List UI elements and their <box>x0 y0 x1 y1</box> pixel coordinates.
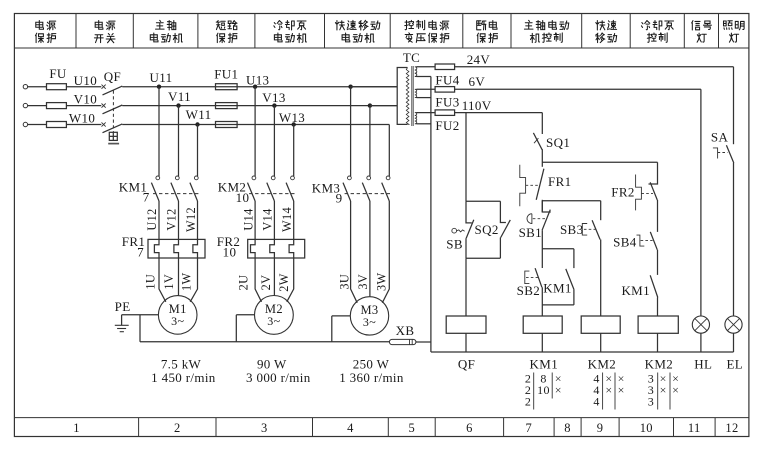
svg-text:FR2: FR2 <box>611 185 634 200</box>
svg-text:1U: 1U <box>144 274 158 290</box>
svg-text:W10: W10 <box>69 111 95 126</box>
node U11 junction <box>157 85 161 89</box>
svg-text:3: 3 <box>261 421 268 435</box>
svg-text:SB: SB <box>446 237 463 252</box>
svg-text:1 450 r/min: 1 450 r/min <box>151 370 216 385</box>
wire V11 drop to KM1 <box>178 106 180 177</box>
svg-text:11: 11 <box>688 421 701 435</box>
wire FR1 to node <box>541 200 543 212</box>
thermal overload FR2 heater elements <box>248 239 305 258</box>
wire KM2 second coil to rail <box>657 333 659 352</box>
header cell 电源开关 <box>94 20 115 42</box>
svg-text:3V: 3V <box>356 274 370 290</box>
fuse FU1 (3 elements) <box>216 84 238 128</box>
svg-text:2V: 2V <box>259 275 273 291</box>
svg-text:FU3: FU3 <box>435 95 459 110</box>
node W11 junction <box>195 122 199 126</box>
phase bus W11 line <box>122 124 389 126</box>
wire W drop to KM3 <box>388 125 390 177</box>
svg-text:V13: V13 <box>262 90 285 105</box>
svg-text:FU4: FU4 <box>435 72 459 87</box>
svg-text:SB3: SB3 <box>560 222 583 237</box>
wire PE to motor M1 <box>122 314 159 316</box>
transformer TC secondary winding 6V <box>415 89 417 97</box>
connector XB <box>389 339 416 344</box>
svg-text:×: × <box>660 383 667 397</box>
svg-text:SQ2: SQ2 <box>475 222 499 237</box>
net 110V line <box>455 112 543 114</box>
transformer TC secondary winding 110V <box>415 113 417 124</box>
wire SB1 to SB2 <box>541 230 543 268</box>
contact usage table KM2 (second) <box>648 372 680 410</box>
svg-text:10: 10 <box>640 421 653 435</box>
node W13 junction <box>292 122 296 126</box>
wire 110V drop to SB-SQ2 branch <box>465 113 467 202</box>
svg-text:KM2: KM2 <box>588 357 617 372</box>
node line to FR2 branch <box>542 161 657 163</box>
svg-text:×: × <box>618 383 625 397</box>
wire FR2 branch upper <box>649 162 658 184</box>
wire FU to QF (V10) <box>66 105 101 107</box>
wire SB2 to KM1 coil <box>541 287 543 316</box>
header cell 快速移动 <box>596 20 617 42</box>
wire SB branch upper <box>466 201 472 223</box>
selector button SB4 <box>637 232 658 250</box>
svg-text:KM1: KM1 <box>543 280 572 295</box>
wire HL to rail <box>700 333 702 352</box>
contactor KM1 main contacts <box>151 176 198 201</box>
header cell 电源保护 <box>35 20 55 42</box>
svg-text:110V: 110V <box>462 98 492 113</box>
breaker QF actuator base bar <box>108 143 119 145</box>
wire SB3 to KM2 coil <box>600 240 602 317</box>
wire SA to EL <box>733 163 735 316</box>
net 6V line <box>455 88 701 90</box>
transformer TC primary winding <box>406 68 409 125</box>
svg-text:1 360 r/min: 1 360 r/min <box>339 370 404 385</box>
svg-text:HL: HL <box>694 357 712 372</box>
svg-text:PE: PE <box>115 299 131 314</box>
svg-text:TC: TC <box>403 50 420 65</box>
svg-text:SB1: SB1 <box>519 225 542 240</box>
breaker QF fixed contacts (x marks) <box>102 85 106 127</box>
svg-text:4: 4 <box>347 421 354 435</box>
svg-text:7: 7 <box>137 245 144 260</box>
bottom reference column dividers <box>139 418 716 437</box>
transformer TC primary terminal bar <box>397 68 407 125</box>
header cell 照明灯 <box>724 21 745 42</box>
header cell 断电保护 <box>477 20 498 42</box>
contact usage table KM1 <box>525 372 562 410</box>
svg-text:6V: 6V <box>469 74 486 89</box>
svg-text:V11: V11 <box>168 89 191 104</box>
svg-text:3 000 r/min: 3 000 r/min <box>246 370 311 385</box>
fuse FU3 <box>435 87 455 93</box>
control common rail (bottom) <box>431 351 734 353</box>
svg-text:W12: W12 <box>184 207 198 232</box>
svg-text:SA: SA <box>711 130 729 145</box>
svg-text:W14: W14 <box>280 207 294 232</box>
phase bus V11 line <box>122 105 397 107</box>
svg-text:QF: QF <box>458 357 475 372</box>
wire TC tap to FU2 <box>417 112 436 114</box>
header cell 主轴电动机控制 <box>524 20 568 42</box>
supply terminal L2 <box>23 103 27 107</box>
stop button SB2 <box>525 268 542 287</box>
svg-text:3~: 3~ <box>171 314 184 328</box>
svg-text:FU: FU <box>49 66 67 81</box>
supply terminal L1 <box>23 85 27 89</box>
svg-text:3~: 3~ <box>267 314 280 328</box>
svg-text:3U: 3U <box>338 274 352 290</box>
control common rail (left) <box>430 77 432 353</box>
pushbutton SB operator <box>452 228 465 233</box>
wire SQ2 branch upper <box>500 201 506 222</box>
wire M3 PE drop <box>331 316 333 342</box>
svg-text:EL: EL <box>727 357 744 372</box>
wires KM2 to FR2 <box>255 201 294 239</box>
svg-text:3W: 3W <box>375 273 389 291</box>
svg-text:2: 2 <box>525 395 531 409</box>
wire FU to QF (W10) <box>66 124 101 126</box>
svg-text:U13: U13 <box>246 72 269 87</box>
header cell 控制电源变压保护 <box>405 20 449 42</box>
thermal contact FR2 <box>636 175 658 211</box>
svg-text:1W: 1W <box>180 273 194 291</box>
wire 24V drop to SA <box>733 67 735 144</box>
svg-text:10: 10 <box>537 383 550 397</box>
coil KM1 <box>523 316 562 333</box>
limit switch SQ2 blade <box>501 220 511 238</box>
wire TC 6V return <box>417 97 431 99</box>
bottom reference row separator <box>14 417 749 419</box>
motor M3 <box>350 297 388 335</box>
start button SB1 <box>527 201 551 231</box>
node V11 junction <box>176 103 180 107</box>
net 24V line <box>455 66 734 68</box>
svg-text:W11: W11 <box>186 107 212 122</box>
header cell 快速移动电动机 <box>335 20 379 42</box>
contactor KM2 main contacts <box>248 176 295 201</box>
svg-text:U11: U11 <box>150 70 173 85</box>
function header row separator <box>14 47 749 49</box>
wire M2 PE drop <box>235 315 237 342</box>
node U-KM3 junction <box>348 85 352 89</box>
coil KM2 (second) <box>638 316 678 333</box>
transformer TC secondary winding 24V <box>415 67 417 77</box>
wire SQ2 branch lower <box>499 238 501 259</box>
svg-text:KM2: KM2 <box>645 357 674 372</box>
wire 110V to SQ1 <box>541 113 543 134</box>
svg-text:10: 10 <box>236 190 250 205</box>
wire terminal to fuse FU (L3) <box>28 124 47 126</box>
wire to QF release coil <box>465 258 467 316</box>
svg-text:8: 8 <box>564 421 571 435</box>
signal lamp HL <box>692 316 709 333</box>
svg-text:10: 10 <box>223 245 237 260</box>
node V-KM3 junction <box>368 103 372 107</box>
limit switch SQ1 <box>533 133 542 150</box>
transformer TC core <box>412 66 413 126</box>
fuse FU4 <box>435 64 455 70</box>
svg-text:7: 7 <box>526 421 533 435</box>
switch SA <box>713 145 734 163</box>
wire V13 drop to KM2 <box>273 106 275 177</box>
svg-text:2W: 2W <box>277 273 291 291</box>
svg-text:7: 7 <box>143 190 150 205</box>
wire W11 drop to KM1 <box>197 125 199 177</box>
svg-text:V12: V12 <box>165 208 179 230</box>
wire SB/SQ2 bottom bridge <box>466 257 500 259</box>
motor M2 <box>255 296 294 335</box>
svg-text:9: 9 <box>336 191 343 206</box>
wire TC tap to FU3 <box>417 88 436 90</box>
supply terminal L3 <box>23 122 27 126</box>
fuse FU (3 elements) <box>47 84 67 128</box>
svg-text:U14: U14 <box>241 208 255 230</box>
header column dividers <box>76 14 719 49</box>
wires KM1 to FR1 <box>159 201 198 239</box>
svg-text:U10: U10 <box>74 73 97 88</box>
wire M3 PE stub <box>332 315 351 317</box>
svg-text:12: 12 <box>725 421 738 435</box>
wire KM2 coil to rail <box>600 333 602 352</box>
wire M2 PE stub <box>236 314 254 316</box>
svg-text:3: 3 <box>648 395 654 409</box>
svg-text:FR1: FR1 <box>548 174 571 189</box>
wire PE bus drop <box>139 315 141 342</box>
wire SB branch lower <box>465 238 467 258</box>
wire W13 drop to KM2 <box>293 125 295 177</box>
svg-text:4: 4 <box>593 395 599 409</box>
wire FU to QF (U10) <box>66 86 101 88</box>
wire SB4 to KM1 aux <box>657 250 659 275</box>
svg-text:V10: V10 <box>74 92 97 107</box>
wire KM1 self-hold bottom bridge <box>542 304 574 306</box>
fuse FU2 <box>435 110 455 116</box>
contact usage table KM2 <box>593 372 624 410</box>
header cell 主轴电动机 <box>150 20 182 42</box>
svg-text:FU2: FU2 <box>435 118 459 133</box>
auxiliary contact KM1 (self-hold) <box>566 269 574 290</box>
breaker QF linkage (dashed) <box>112 91 114 133</box>
wire SB/SQ2 top bridge <box>466 200 500 202</box>
header cell 冷却泵控制 <box>641 21 673 43</box>
node line to SB3 branch <box>542 200 600 202</box>
wire XB to control common rail <box>416 341 431 343</box>
wires FR2 to motor M2 <box>255 258 294 302</box>
breaker QF manual actuator <box>109 132 117 140</box>
svg-text:SB4: SB4 <box>613 235 637 250</box>
auxiliary contact KM1 (cooling interlock) <box>650 275 658 297</box>
svg-text:SQ1: SQ1 <box>546 135 570 150</box>
svg-text:FU1: FU1 <box>214 67 238 82</box>
wire TC 110V return <box>417 123 431 125</box>
svg-text:XB: XB <box>396 323 415 338</box>
svg-text:1V: 1V <box>162 274 176 290</box>
svg-text:×: × <box>672 383 679 397</box>
wire terminal to fuse FU (L2) <box>28 105 47 107</box>
wire SQ1 to FR1 <box>541 149 543 167</box>
svg-text:U12: U12 <box>145 208 159 230</box>
svg-text:KM1: KM1 <box>530 357 559 372</box>
coil QF (undervoltage release) <box>446 316 486 333</box>
wire SB3 branch upper <box>600 201 602 221</box>
wire U drop to KM3 <box>350 87 352 177</box>
svg-text:6: 6 <box>466 421 473 435</box>
svg-text:SB2: SB2 <box>517 283 540 298</box>
thermal contact FR1 (NC) <box>520 165 544 206</box>
wire terminal to fuse FU (L1) <box>28 86 47 88</box>
thermal overload FR1 heater elements <box>148 239 205 258</box>
wire TC tap to FU4 <box>417 66 436 68</box>
wire TC 24V return <box>417 76 431 78</box>
coil KM2 <box>581 316 620 333</box>
svg-text:KM1: KM1 <box>621 283 650 298</box>
wire KM1 aux lower <box>573 290 575 305</box>
pushbutton SB3 <box>582 220 600 239</box>
svg-text:V14: V14 <box>261 208 275 230</box>
svg-text:1: 1 <box>73 421 80 435</box>
wire U11 drop to KM1 <box>158 87 160 177</box>
wire KM1 aux to KM2 coil <box>657 298 659 317</box>
contactor KM3 main contacts <box>343 176 391 201</box>
motor M1 <box>158 296 197 335</box>
ground symbol PE <box>115 315 129 332</box>
svg-text:9: 9 <box>597 421 604 435</box>
wire U13 drop to KM2 <box>254 87 256 177</box>
wire QF coil to rail <box>465 333 467 352</box>
wire EL to rail <box>733 333 735 352</box>
svg-text:5: 5 <box>408 421 415 435</box>
node V13 junction <box>272 103 276 107</box>
svg-text:2: 2 <box>174 421 181 435</box>
wire FR2 to SB4 <box>657 200 659 232</box>
wire U to TC primary <box>351 86 398 88</box>
wire KM1 aux upper <box>573 249 575 268</box>
bottom reference numbers 1-12 <box>73 421 738 435</box>
wire V drop to KM3 <box>369 106 371 177</box>
svg-text:W13: W13 <box>279 110 305 125</box>
svg-text:×: × <box>605 383 612 397</box>
wire 6V drop to HL <box>700 89 702 316</box>
illumination lamp EL <box>725 316 742 333</box>
phase bus U11 line <box>122 86 397 88</box>
svg-text:QF: QF <box>104 69 121 84</box>
wire KM1 coil to rail <box>541 333 543 352</box>
header cell 信号灯 <box>692 21 712 43</box>
wire PE bus to XB <box>140 341 389 343</box>
header cell 冷却泵电动机 <box>274 21 307 43</box>
wire V to TC primary <box>370 105 397 107</box>
pushbutton SB blade <box>466 220 474 238</box>
svg-text:3~: 3~ <box>363 315 376 329</box>
wires FR1 to motor M1 <box>159 258 198 302</box>
breaker QF blades <box>103 86 123 133</box>
wire KM1 self-hold top bridge <box>542 248 574 250</box>
svg-text:2U: 2U <box>237 275 251 291</box>
svg-text:24V: 24V <box>467 52 491 67</box>
svg-text:×: × <box>555 383 562 397</box>
node U13 junction <box>253 85 257 89</box>
wires KM3 to motor M3 <box>351 201 390 303</box>
header cell 短路保护 <box>216 21 237 43</box>
